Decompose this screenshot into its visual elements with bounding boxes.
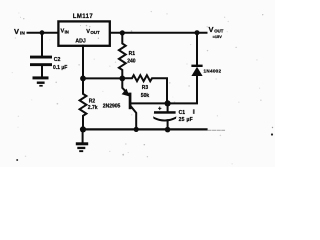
wire C2 branch down bbox=[41, 33, 43, 56]
svg-text:240: 240 bbox=[127, 58, 136, 64]
svg-text:1N4002: 1N4002 bbox=[204, 69, 222, 74]
node collector junction bbox=[134, 127, 139, 132]
wire ground rail bbox=[83, 128, 207, 130]
node R1 top junction bbox=[120, 30, 125, 35]
svg-text:LM117: LM117 bbox=[73, 14, 94, 20]
wire input from VIN label to regulator bbox=[28, 32, 59, 34]
node diode top junction bbox=[195, 30, 200, 35]
node base junction bbox=[165, 100, 171, 106]
svg-text:25 µF: 25 µF bbox=[179, 117, 193, 123]
wire ADJ horizontal bbox=[83, 77, 122, 79]
svg-text:2N2905: 2N2905 bbox=[103, 104, 121, 110]
node input junction bbox=[40, 30, 45, 35]
regulator U1 LM117 bbox=[58, 21, 109, 45]
capacitor C1 bbox=[167, 103, 169, 111]
svg-text:R3: R3 bbox=[142, 85, 149, 91]
svg-text:C2: C2 bbox=[54, 57, 61, 63]
svg-text:50k: 50k bbox=[141, 93, 150, 99]
wire base lead bbox=[131, 102, 168, 104]
resistor R1 bbox=[119, 33, 126, 79]
svg-text:V: V bbox=[14, 27, 19, 36]
node ground rail left junction bbox=[80, 126, 86, 132]
node VOUT label bbox=[209, 25, 224, 39]
diode D1 1N4002 bbox=[191, 65, 202, 76]
resistor R2 bbox=[80, 78, 87, 129]
ground under R2 bbox=[82, 129, 84, 142]
node stray dot bbox=[271, 133, 273, 135]
svg-text:ADJ: ADJ bbox=[75, 38, 85, 44]
transistor Q1 2N2905 bbox=[122, 78, 129, 94]
svg-text:OUT: OUT bbox=[90, 30, 100, 35]
node VIN label bbox=[14, 27, 25, 37]
resistor R3 run bbox=[122, 75, 167, 103]
wire base node to diode bbox=[168, 76, 197, 103]
svg-text:IN: IN bbox=[20, 31, 25, 37]
svg-text:+: + bbox=[158, 106, 162, 112]
svg-text:=15V: =15V bbox=[213, 34, 223, 39]
svg-text:R2: R2 bbox=[89, 98, 96, 104]
svg-text:IN: IN bbox=[65, 29, 69, 34]
svg-text:C1: C1 bbox=[179, 110, 186, 116]
wire ADJ pin down bbox=[82, 46, 84, 79]
wire output from regulator bbox=[110, 32, 207, 34]
svg-text:R1: R1 bbox=[129, 51, 136, 57]
svg-text:2.7k: 2.7k bbox=[88, 105, 98, 111]
svg-text:0.1 µF: 0.1 µF bbox=[53, 65, 67, 71]
svg-text:V: V bbox=[209, 25, 214, 34]
capacitor C2 bbox=[30, 56, 52, 67]
node C1 bottom junction bbox=[165, 127, 171, 133]
node ADJ junction bbox=[80, 76, 86, 82]
ground under C2 bbox=[33, 76, 49, 86]
node R1 bottom junction bbox=[119, 76, 125, 82]
